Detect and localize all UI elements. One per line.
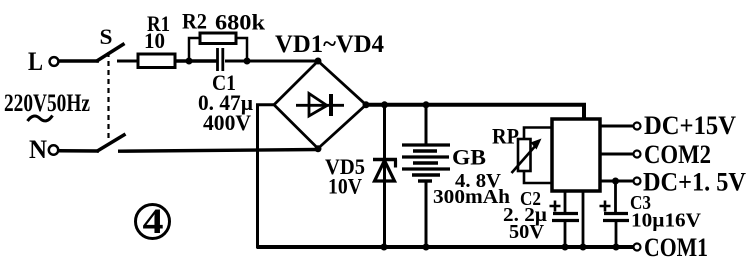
terminal COM1 (634, 233, 709, 262)
label 220V50Hz (4, 90, 90, 121)
wire converter to DC+15V terminal (600, 125, 633, 128)
wire RP top to converter (524, 128, 552, 140)
wire R1 to node A (175, 59, 217, 63)
junction converter pin2 bottom (580, 244, 587, 251)
capacitor C1 (198, 48, 253, 135)
wire L to switch (58, 59, 99, 62)
junction VD5 bottom (381, 244, 388, 251)
wire node A up to R2 (189, 38, 200, 61)
junction VD5 top (381, 101, 388, 108)
positive rail wire (366, 105, 584, 119)
svg-text:10µ16V: 10µ16V (631, 210, 702, 232)
svg-text:COM2: COM2 (644, 140, 711, 169)
switch S pole 1 (96, 24, 125, 62)
terminal COM2 (634, 140, 712, 169)
node A junction (186, 58, 193, 65)
wire C1 to bridge top vertex (225, 60, 318, 63)
wire converter bottom pin 1 (564, 191, 567, 213)
svg-text:R2: R2 (182, 9, 207, 34)
bridge bottom vertex junction (315, 145, 322, 152)
terminal DC+1.5V (634, 168, 747, 197)
resistor R2 (182, 9, 266, 44)
junction C3 bottom (613, 244, 620, 251)
DC converter block U1 (552, 119, 600, 191)
wire RP bottom to converter (524, 171, 552, 183)
junction GB top (423, 101, 430, 108)
node B junction (244, 58, 251, 65)
battery GB (402, 105, 510, 247)
svg-text:RP: RP (492, 124, 519, 149)
svg-text:DC+15V: DC+15V (644, 111, 736, 140)
junction C3 top (612, 178, 619, 185)
svg-text:220V50Hz: 220V50Hz (4, 90, 90, 117)
wire converter bottom pin 2 (582, 191, 585, 247)
svg-text:4: 4 (143, 201, 164, 241)
svg-text:N: N (29, 135, 47, 164)
bridge rectifier VD1~VD4 (274, 31, 384, 149)
junction GB bottom (423, 244, 430, 251)
svg-text:DC+1. 5V: DC+1. 5V (643, 168, 746, 197)
switch S pole 2 (97, 134, 126, 152)
wire switch to R1 (117, 60, 139, 63)
terminal N (29, 135, 58, 164)
svg-text:S: S (100, 24, 113, 49)
svg-text:10: 10 (144, 28, 165, 53)
capacitor C2 (503, 188, 579, 247)
zener diode VD5 (325, 105, 397, 247)
bridge top vertex junction (315, 58, 322, 65)
svg-text:300mAh: 300mAh (433, 186, 510, 208)
svg-text:COM1: COM1 (644, 233, 708, 262)
wire converter to COM2 terminal (600, 153, 633, 156)
negative rail wire (257, 245, 635, 249)
svg-text:L: L (28, 47, 43, 76)
svg-text:680k: 680k (215, 10, 266, 35)
capacitor C3 (600, 181, 702, 247)
svg-text:10V: 10V (328, 174, 362, 199)
svg-text:400V: 400V (203, 110, 251, 135)
terminal DC+15V (634, 111, 737, 140)
bridge right vertex junction (363, 101, 370, 108)
wire bridge left vertex to negative rail (258, 105, 275, 248)
resistor R1 (138, 11, 175, 68)
wire N to switch (59, 149, 100, 153)
wire converter to DC+1.5V terminal (600, 180, 633, 183)
potentiometer RP (492, 124, 542, 174)
switch mechanical link (dashed) (107, 52, 109, 141)
wire switch to bridge bottom vertex (118, 150, 318, 152)
figure number 4 (136, 201, 170, 241)
wire R2 down to node B (236, 38, 247, 61)
junction C2 bottom (562, 244, 569, 251)
svg-text:GB: GB (452, 145, 486, 170)
svg-text:50V: 50V (509, 221, 545, 243)
bridge inner diode (296, 94, 344, 117)
terminal L (28, 47, 58, 76)
svg-text:VD1~VD4: VD1~VD4 (275, 31, 384, 58)
